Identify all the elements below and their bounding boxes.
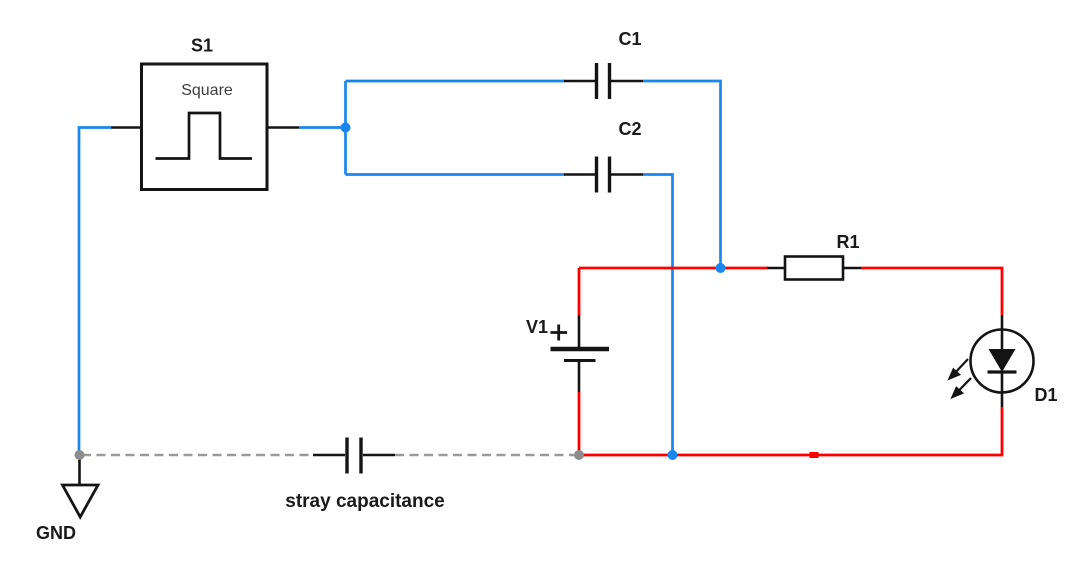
S1 right pin xyxy=(267,126,299,128)
wire: blue to C1 left lead xyxy=(346,80,566,83)
svg-text:GND: GND xyxy=(36,523,76,543)
resistor R1 xyxy=(767,257,862,280)
square-wave glyph xyxy=(156,113,253,159)
wire: gray dashed from GND node to stray capacitor xyxy=(82,454,313,457)
node: junction at S1 output xyxy=(341,123,351,133)
stray capacitor xyxy=(313,438,395,474)
capacitor C1 xyxy=(564,63,643,99)
svg-text:C1: C1 xyxy=(618,29,641,49)
battery V1 xyxy=(551,316,610,393)
svg-text:S1: S1 xyxy=(191,36,213,56)
wire overlap mark on bottom red wire xyxy=(810,452,819,458)
svg-text:C2: C2 xyxy=(618,119,641,139)
svg-text:stray capacitance: stray capacitance xyxy=(285,491,445,512)
wire: red from D1 bottom to bottom-right corner and left along bottom xyxy=(579,407,1002,455)
node: junction of C2 on bottom red wire xyxy=(668,450,678,460)
wire: red from top-left corner down to V1 plus plate xyxy=(578,268,581,316)
LED D1 emission arrows xyxy=(950,359,972,397)
wire: blue to C2 left lead xyxy=(346,173,566,176)
wire: blue vertical between C1 row and C2 row xyxy=(344,81,347,175)
svg-text:R1: R1 xyxy=(836,232,859,252)
svg-text:V1: V1 xyxy=(526,317,548,337)
wire: red from R1 right lead to top-right corner and down to D1 xyxy=(861,268,1002,315)
V1 plus sign xyxy=(551,325,568,341)
node: gray junction at GND xyxy=(75,450,85,460)
signal source S1 box xyxy=(142,64,268,190)
node: gray junction at bottom of V1 branch xyxy=(574,450,584,460)
wire: blue from C2 right lead down to bottom red wire xyxy=(643,175,673,456)
svg-text:D1: D1 xyxy=(1034,385,1057,405)
wire: blue from S1 left pin to GND node (horizontal + vertical) xyxy=(79,128,111,456)
wire: gray dashed from stray capacitor to circuit ground node xyxy=(395,454,575,457)
wire: blue from S1 right pin to junction xyxy=(299,126,346,129)
capacitor C2 xyxy=(564,157,643,193)
LED D1 xyxy=(971,315,1034,407)
svg-text:Square: Square xyxy=(181,82,233,99)
wire: red from V1 minus to bottom-left corner xyxy=(578,392,581,455)
S1 left pin xyxy=(111,126,142,128)
wire: blue from C1 right lead down to red top wire xyxy=(643,81,721,268)
ground xyxy=(63,455,99,517)
wire: red top net from V1 branch to R1 left lead xyxy=(579,267,768,270)
node: junction of C1 on top red wire xyxy=(716,263,726,273)
